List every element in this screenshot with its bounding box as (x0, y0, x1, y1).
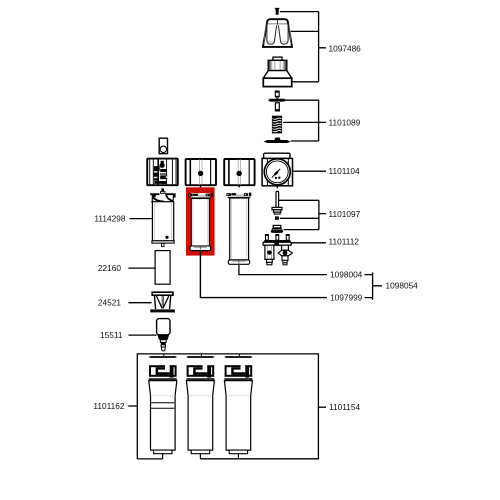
svg-text:22160: 22160 (98, 263, 121, 273)
svg-text:24521: 24521 (98, 297, 121, 307)
cap 3 (224, 159, 254, 187)
svg-text:1101104: 1101104 (329, 166, 360, 176)
svg-text:1101112: 1101112 (329, 236, 360, 246)
cartridge 2 (middle) (186, 354, 215, 454)
bottle 15511 (157, 319, 170, 351)
highlighted filter sump 1097999 (188, 193, 213, 251)
manifold 1101112 (263, 235, 292, 265)
poppet valve (1101089) (268, 91, 286, 112)
pressure gauge 1101104 (262, 153, 292, 188)
cap 2 (186, 159, 216, 187)
funnel 24521 (150, 292, 175, 312)
filter body 1114298 (150, 188, 175, 246)
leader 1097999 (200, 251, 327, 298)
svg-text:1097999: 1097999 (330, 292, 363, 302)
bracket 1098054 (365, 272, 383, 299)
svg-text:1097486: 1097486 (329, 43, 362, 53)
valve stem 1101097 (271, 191, 284, 233)
svg-text:1101162: 1101162 (93, 401, 124, 411)
svg-text:1098054: 1098054 (386, 280, 419, 290)
leader 1098004 (239, 264, 327, 274)
cartridge 3 (right) (224, 354, 253, 454)
leader 1101162 (128, 405, 137, 407)
leader 1101104 (293, 170, 326, 172)
svg-text:1101097: 1101097 (329, 209, 361, 219)
leader 15511 (129, 334, 157, 336)
cartridge 1 (left, 1101162) (148, 354, 177, 454)
leader bracket 1097486 (280, 12, 326, 82)
screw (top of knob 1097486) (275, 8, 280, 15)
leader 1101154 (318, 406, 326, 408)
small plate (above cap 1) (159, 138, 167, 153)
cap 1 (with mechanism) (147, 159, 178, 186)
bottom bracket (filter housing frame) (137, 354, 318, 459)
red highlight box (186, 187, 215, 255)
disc washer 1101089 (264, 138, 291, 144)
knob base (bell) 1097486 (263, 57, 291, 87)
spring 1101089 (272, 116, 282, 134)
svg-text:1101089: 1101089 (329, 117, 361, 127)
svg-text:1114298: 1114298 (94, 213, 125, 223)
knob 1097486 (263, 19, 292, 47)
svg-text:1098004: 1098004 (330, 269, 363, 279)
leader 22160 (129, 267, 156, 269)
cartridge 1 label band (151, 403, 174, 408)
leader 24521 (129, 302, 152, 304)
leader bracket 1101089 (283, 100, 326, 141)
filter sump 1098004 (226, 193, 251, 265)
leader 1101112 (291, 242, 326, 244)
rect 22160 (155, 251, 170, 285)
leader bracket 1101097 (279, 200, 326, 229)
svg-text:1101154: 1101154 (329, 402, 360, 412)
svg-text:15511: 15511 (100, 330, 123, 340)
leader 1114298 (130, 218, 153, 220)
